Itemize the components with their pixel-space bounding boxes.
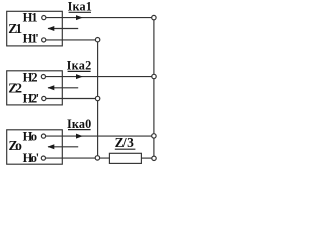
svg-text:Iка0: Iка0 bbox=[67, 117, 91, 131]
svg-text:': ' bbox=[35, 32, 39, 46]
svg-text:2: 2 bbox=[15, 80, 22, 95]
svg-text:Iка2: Iка2 bbox=[67, 58, 92, 72]
svg-text:': ' bbox=[36, 92, 40, 106]
svg-text:o: o bbox=[15, 138, 22, 153]
svg-text:2: 2 bbox=[31, 70, 37, 84]
svg-text:3: 3 bbox=[127, 135, 134, 150]
svg-text:1: 1 bbox=[31, 11, 37, 25]
svg-text:1: 1 bbox=[15, 21, 22, 36]
svg-text:Iка1: Iка1 bbox=[68, 0, 92, 14]
svg-text:': ' bbox=[36, 151, 40, 165]
svg-text:o: o bbox=[31, 129, 37, 143]
